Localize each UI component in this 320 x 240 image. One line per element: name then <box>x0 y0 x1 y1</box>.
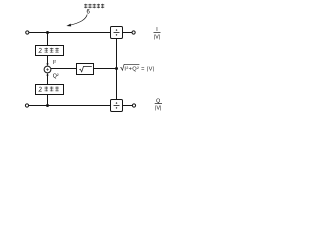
leader arrow to rail <box>70 15 87 26</box>
wire top I rail <box>29 32 110 34</box>
label I over |V| <box>154 27 160 40</box>
svg-text:I²+Q² = |V|: I²+Q² = |V| <box>124 66 154 72</box>
wire node to squarer 2 <box>47 95 49 106</box>
label Q over |V| <box>155 98 161 111</box>
label 2乗演算 (block 2) <box>39 87 42 91</box>
node junction on bottom rail <box>46 104 49 107</box>
wire node to squarer 1 <box>47 33 49 46</box>
svg-text:Q²: Q² <box>53 74 59 80</box>
adder U1 <box>44 66 51 73</box>
wire adder to sqrt block and sqrt to node <box>51 68 117 70</box>
node junction on top rail <box>46 31 49 34</box>
svg-text:|V|: |V| <box>155 106 161 112</box>
terminal Q/|V| output <box>132 104 135 107</box>
annotation 補正処理部 <box>84 4 104 9</box>
wire divider bottom to output terminal <box>123 105 133 107</box>
wire divider top to output terminal <box>123 32 133 34</box>
squaring block 1 (2乗演算) <box>36 46 64 56</box>
squaring block 2 (2乗演算) <box>36 85 64 95</box>
wire bottom Q rail <box>29 105 111 107</box>
terminal Q input (bottom-left) <box>25 104 28 107</box>
sqrt block <box>77 64 94 75</box>
divider block bottom (÷) <box>111 100 123 112</box>
divider block top (÷) <box>111 27 123 39</box>
label 2乗演算 (block 1) <box>39 48 42 52</box>
terminal I input (top-left) <box>26 31 29 34</box>
svg-text:I²: I² <box>53 60 56 66</box>
terminal I/|V| output <box>132 31 135 34</box>
wire squarer2 to adder with arrowhead <box>47 75 49 85</box>
wire |V| branch vertical <box>116 39 118 100</box>
node |V| junction <box>115 67 118 70</box>
wire squarer1 to adder with arrowhead <box>47 56 49 65</box>
svg-text:|V|: |V| <box>154 35 160 41</box>
